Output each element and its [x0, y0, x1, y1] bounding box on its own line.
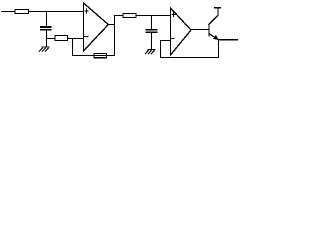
wire input lead: [2, 11, 16, 13]
wire emitter to rail: [218, 40, 220, 58]
op-amp U1: [84, 3, 109, 51]
wire C2 bottom stem: [151, 33, 153, 50]
op-amp U2: [171, 8, 192, 55]
wire U2 - input: [161, 40, 171, 42]
wire R2 to op-amp - input: [68, 38, 84, 40]
capacitor C1: [41, 27, 51, 30]
resistor R3: [123, 14, 136, 18]
plus label U2: [172, 12, 176, 16]
resistor R2: [55, 36, 68, 41]
wire output: [219, 39, 238, 41]
wire feedback rail: [73, 55, 115, 57]
transistor Q1 emitter with arrow: [209, 34, 219, 41]
minus label U2: [171, 38, 174, 40]
wire node to R2: [47, 38, 56, 40]
wire C2 top stem: [151, 16, 153, 30]
wire feedback vertical left: [72, 39, 74, 56]
wire R3 to op-amp 2: [136, 15, 171, 17]
minus label U1: [85, 35, 89, 37]
plus label U1: [85, 9, 88, 13]
ground (C1): [39, 47, 49, 51]
transistor Q1 collector: [209, 8, 218, 25]
capacitor C2: [147, 30, 157, 32]
wire U2 output to base: [191, 29, 209, 31]
resistor R1: [15, 10, 29, 14]
wire C1 bottom stem: [46, 30, 48, 47]
wire divider vertical: [160, 41, 162, 58]
wire to R3: [115, 15, 124, 17]
wire op-amp output: [108, 24, 115, 26]
wire bottom rail stage2: [161, 57, 219, 59]
power bar VCC: [215, 7, 221, 9]
resistor R4 feedback: [94, 54, 107, 58]
transistor Q1 base bar: [208, 24, 210, 36]
wire output vertical: [114, 16, 116, 56]
ground (C2): [145, 49, 155, 53]
wire C1 top stem: [46, 12, 48, 27]
wire R1 to op-amp + input: [29, 11, 83, 13]
